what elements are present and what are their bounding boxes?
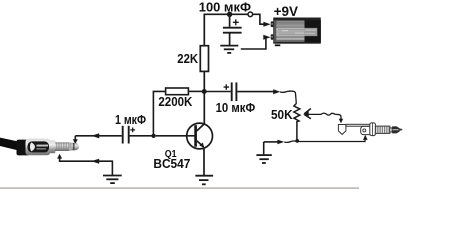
battery BT1 9V xyxy=(271,18,321,44)
svg-text:2200K: 2200K xyxy=(158,95,192,109)
wire bottom rail pot to grounds and jack sleeve xyxy=(264,141,278,143)
capacitor C2 1мкФ xyxy=(75,126,151,144)
svg-text:10 мкФ: 10 мкФ xyxy=(216,100,256,115)
svg-text:+9V: +9V xyxy=(274,4,298,19)
svg-text:100 мкФ: 100 мкФ xyxy=(199,1,252,15)
wire battery minus to ground xyxy=(241,38,266,49)
terminal battery plus open circle xyxy=(248,12,253,17)
node pot bottom junction xyxy=(295,139,299,143)
transistor Q1 xyxy=(187,123,213,149)
wiper arrow of pot xyxy=(305,109,311,119)
svg-text:22K: 22K xyxy=(177,52,198,66)
ground under 100мкФ xyxy=(220,46,238,53)
wire input signal arrow to jack tip xyxy=(91,133,99,138)
potentiometer R3 50K xyxy=(294,104,300,140)
node base junction xyxy=(151,134,155,138)
node collector junction xyxy=(202,89,207,94)
wire down to ground left of pot xyxy=(263,142,265,155)
wire input ground arrow to jack sleeve xyxy=(57,154,62,159)
wire top supply rail xyxy=(204,13,248,15)
output jack J2 (3.5mm plug line art) xyxy=(338,123,392,136)
label minus sign xyxy=(275,44,281,46)
wire emitter to ground xyxy=(203,149,205,175)
wire arrow toward pot top xyxy=(273,89,280,94)
wire wiper to output jack tip xyxy=(308,113,341,119)
ground pot return xyxy=(256,155,271,163)
ground input jack xyxy=(103,176,122,184)
capacitor C1 100мкФ electrolytic xyxy=(223,15,242,45)
svg-text:50K: 50K xyxy=(271,108,293,122)
resistor R1 22K xyxy=(203,14,205,46)
svg-text:BC547: BC547 xyxy=(153,156,190,171)
svg-text:1 мкФ: 1 мкФ xyxy=(115,112,146,127)
bottom frame line xyxy=(0,187,359,188)
resistor R2 2200K xyxy=(188,90,202,92)
node supply junction xyxy=(227,12,232,17)
input jack J1 (6.3mm plug photo) xyxy=(0,138,79,156)
capacitor C3 10мкФ xyxy=(206,82,273,101)
wire open circle to battery plus xyxy=(253,14,264,24)
ground emitter xyxy=(195,176,213,185)
